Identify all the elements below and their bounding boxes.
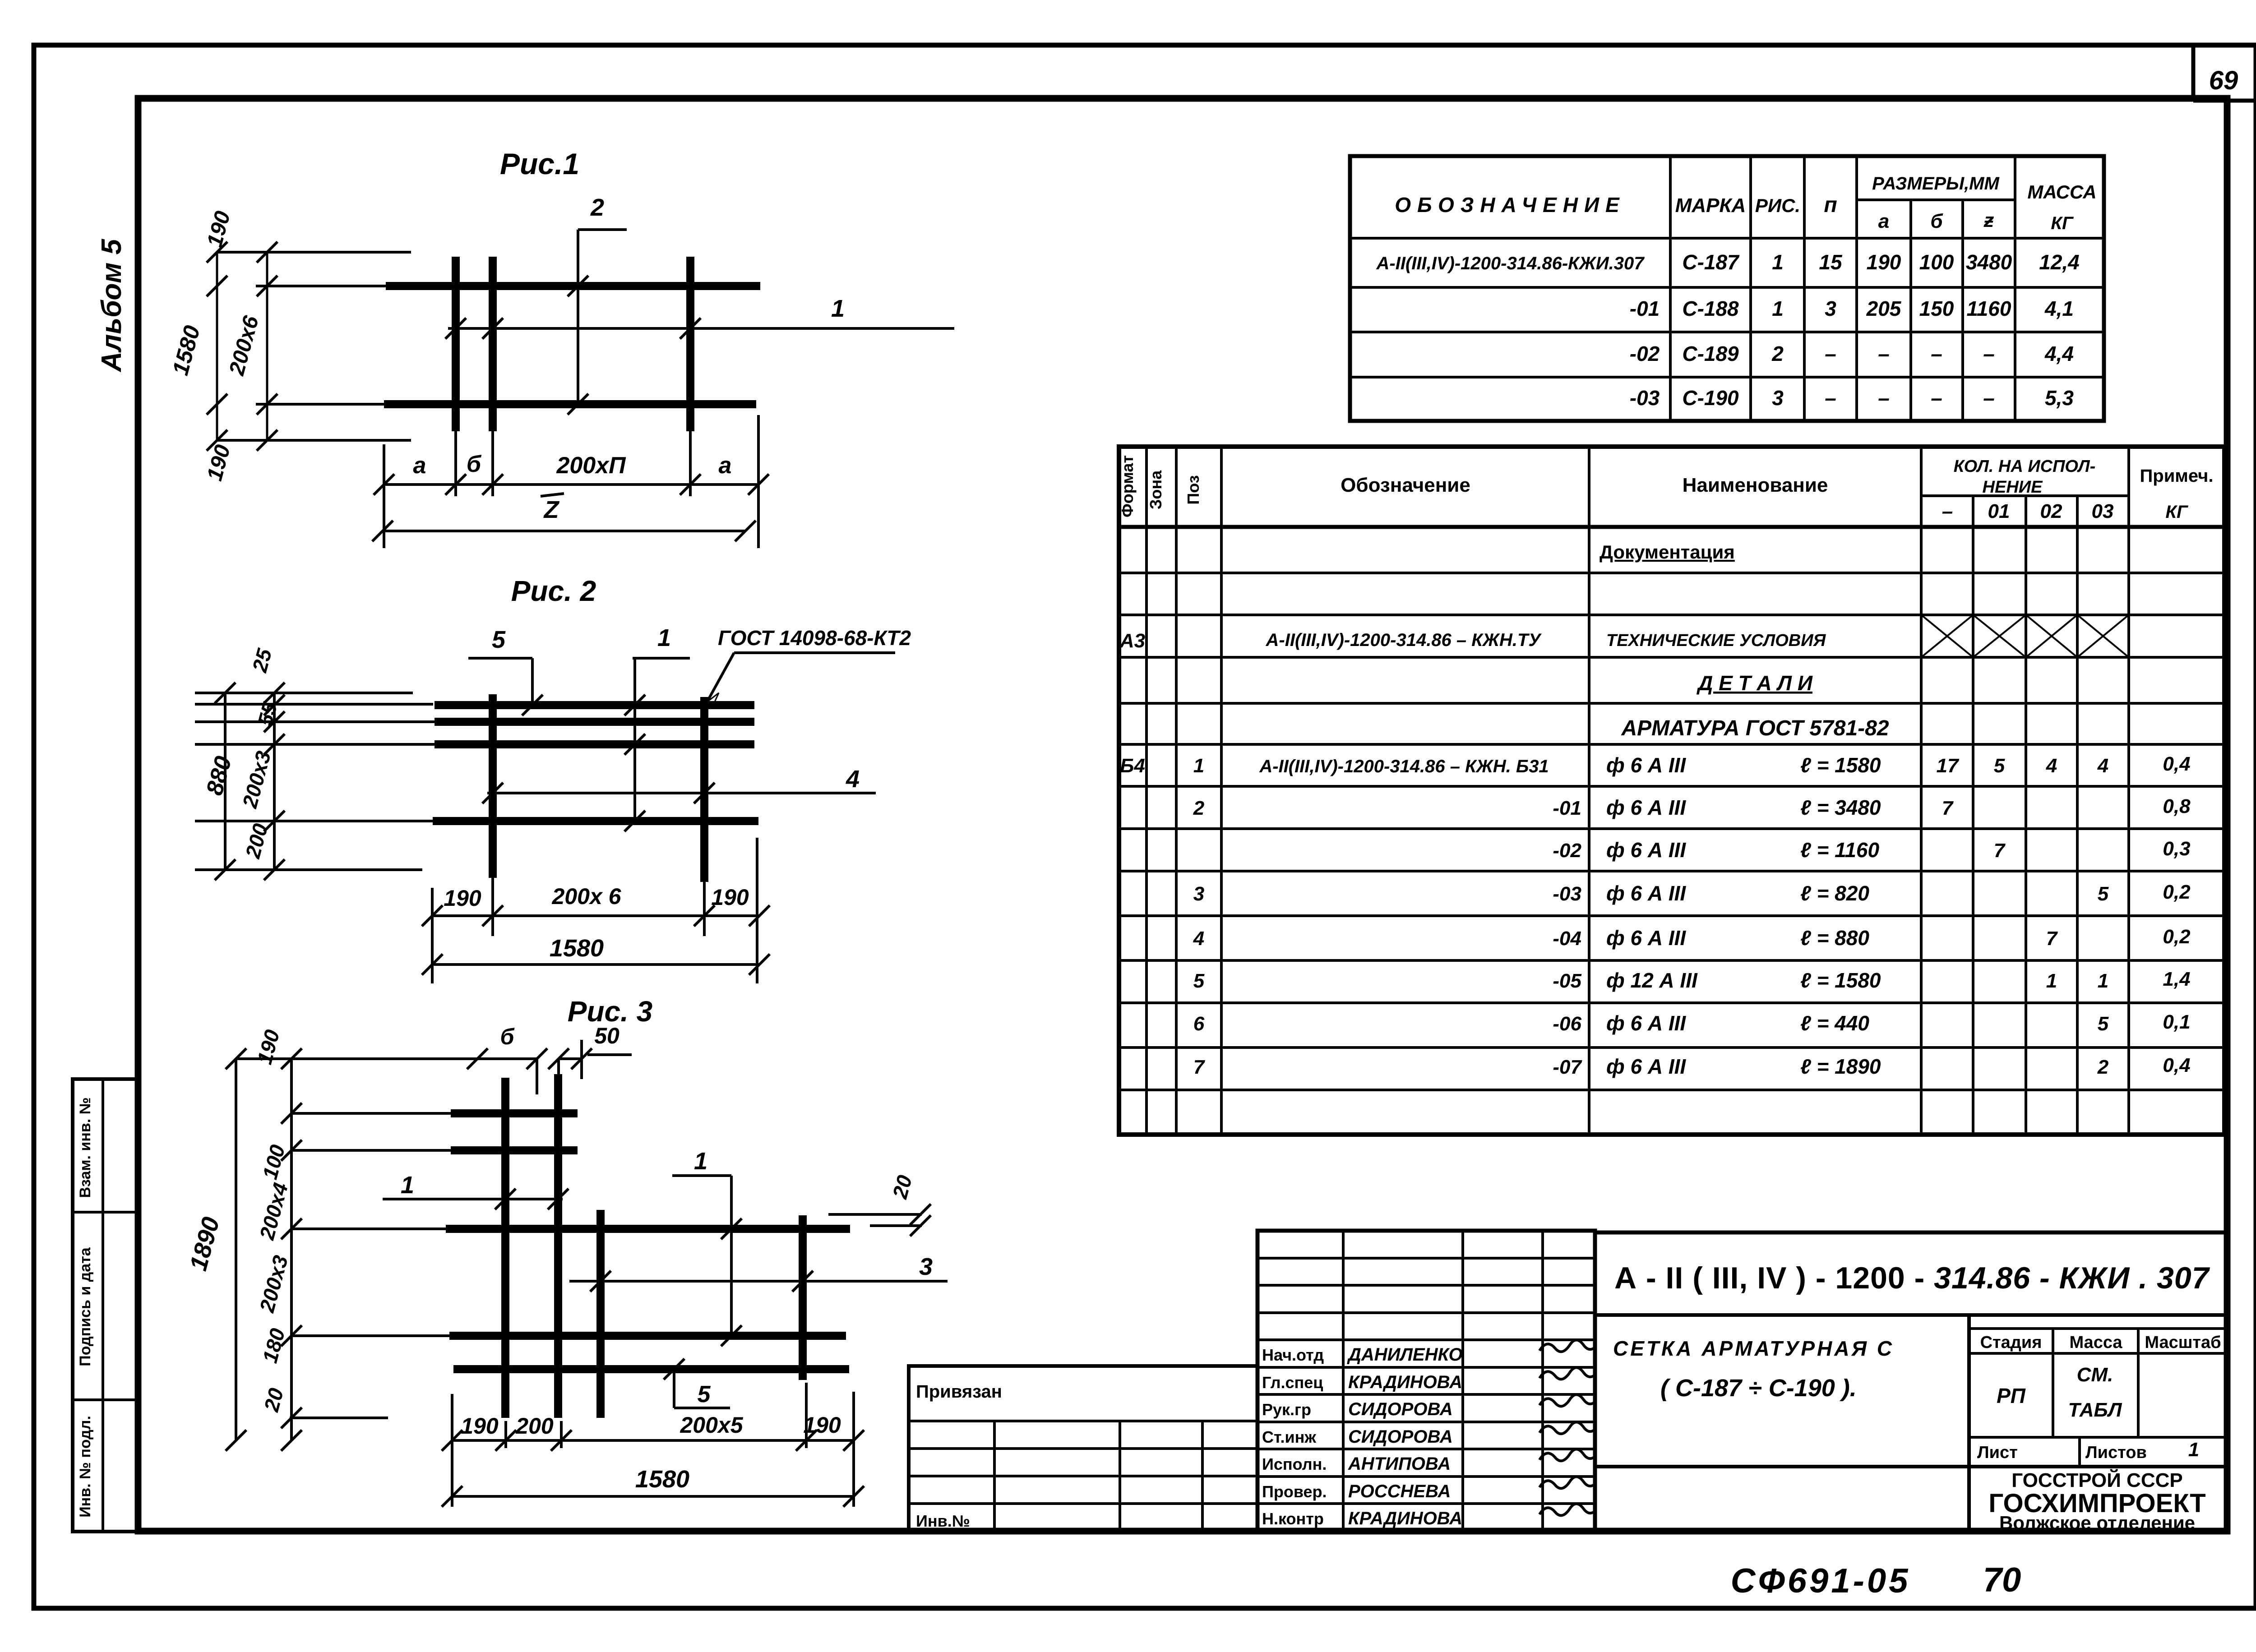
svg-text:-07: -07 [1553,1056,1582,1078]
svg-text:ℓ = 440: ℓ = 440 [1800,1011,1869,1035]
svg-text:200хП: 200хП [556,452,626,479]
svg-text:4: 4 [1193,928,1204,950]
svg-text:200: 200 [515,1413,554,1439]
svg-text:Н.контр: Н.контр [1262,1509,1324,1528]
svg-text:Формат: Формат [1118,455,1137,517]
svg-text:а: а [1878,210,1889,232]
svg-text:0,8: 0,8 [2163,795,2191,817]
svg-text:ℓ = 1890: ℓ = 1890 [1800,1055,1881,1078]
svg-text:1: 1 [831,295,845,322]
svg-text:–: – [1931,342,1942,365]
svg-text:( С-187 ÷ С-190 ).: ( С-187 ÷ С-190 ). [1660,1375,1857,1402]
svg-text:ф 6 А III: ф 6 А III [1606,881,1686,905]
svg-text:4: 4 [846,766,860,793]
svg-text:-02: -02 [1553,840,1581,862]
svg-text:ℓ = 1580: ℓ = 1580 [1800,969,1881,992]
svg-text:2: 2 [1193,797,1205,819]
svg-text:КГ: КГ [2165,502,2189,522]
svg-text:–: – [1825,342,1836,365]
svg-text:С-189: С-189 [1682,342,1739,365]
svg-text:Масштаб: Масштаб [2145,1333,2221,1352]
svg-text:150: 150 [1919,297,1954,320]
svg-text:РИС.: РИС. [1755,195,1800,216]
svg-text:1: 1 [1193,755,1204,777]
svg-text:КРАДИНОВА: КРАДИНОВА [1348,1372,1462,1392]
svg-text:-01: -01 [1630,297,1660,320]
svg-text:–: – [1931,386,1942,410]
svg-text:3: 3 [1193,883,1204,905]
svg-text:п: п [1824,193,1837,217]
svg-text:7: 7 [2046,928,2058,950]
svg-text:КОЛ. НА ИСПОЛ-: КОЛ. НА ИСПОЛ- [1954,457,2096,476]
svg-text:2: 2 [2097,1056,2109,1078]
svg-text:25: 25 [248,646,277,675]
svg-text:а: а [413,452,426,479]
svg-text:Волжское отделение: Волжское отделение [1999,1512,2195,1533]
svg-text:ℓ = 1160: ℓ = 1160 [1800,838,1880,862]
svg-text:СМ.: СМ. [2077,1364,2113,1386]
svg-text:–: – [1942,500,1953,522]
svg-text:РАЗМЕРЫ,ММ: РАЗМЕРЫ,ММ [1872,174,2000,194]
svg-text:3: 3 [1825,297,1836,320]
svg-text:Рис. 2: Рис. 2 [511,575,596,607]
svg-text:7: 7 [1942,797,1954,819]
svg-text:ГОССТРОЙ СССР: ГОССТРОЙ СССР [2011,1468,2182,1491]
svg-text:-03: -03 [1553,883,1581,905]
svg-text:190: 190 [461,1413,499,1439]
svg-text:СИДОРОВА: СИДОРОВА [1348,1427,1453,1447]
svg-text:Инв.№: Инв.№ [916,1512,970,1530]
svg-text:А3: А3 [1119,630,1145,652]
svg-text:Лист: Лист [1977,1443,2018,1462]
svg-text:СЕТКА АРМАТУРНАЯ С: СЕТКА АРМАТУРНАЯ С [1613,1337,1894,1360]
svg-text:РОССНЕВА: РОССНЕВА [1348,1481,1451,1501]
svg-text:190: 190 [803,1412,841,1438]
svg-text:1: 1 [401,1172,414,1199]
svg-text:ф 6 А III: ф 6 А III [1606,796,1686,819]
svg-text:-03: -03 [1630,386,1660,410]
svg-text:190: 190 [203,208,235,249]
svg-text:А-II(III,IV)-1200-314.86 – КЖН: А-II(III,IV)-1200-314.86 – КЖН. Б31 [1259,757,1549,776]
svg-text:ф 6 А III: ф 6 А III [1606,753,1686,777]
svg-text:Б4: Б4 [1120,755,1145,777]
svg-text:0,2: 0,2 [2163,881,2191,903]
svg-text:7: 7 [1994,840,2006,862]
svg-text:3: 3 [919,1253,933,1280]
svg-text:70: 70 [1983,1561,2021,1599]
svg-text:03: 03 [2092,500,2114,522]
svg-text:180: 180 [258,1326,289,1366]
svg-text:Рис.1: Рис.1 [500,147,579,180]
svg-text:Альбом 5: Альбом 5 [96,238,127,373]
svg-text:Подпись и дата: Подпись и дата [77,1247,94,1366]
svg-text:205: 205 [1866,297,1902,320]
svg-text:Гл.спец: Гл.спец [1262,1373,1323,1392]
svg-text:2: 2 [590,194,604,221]
svg-text:КГ: КГ [2051,213,2074,233]
svg-text:б: б [467,451,482,477]
svg-text:200х6: 200х6 [225,313,264,378]
svg-text:880: 880 [201,753,236,798]
svg-text:12,4: 12,4 [2039,250,2080,274]
svg-text:С-187: С-187 [1682,250,1740,274]
svg-text:РП: РП [1997,1384,2026,1407]
svg-text:1: 1 [1772,250,1784,274]
svg-text:190: 190 [1867,250,1901,274]
svg-text:200х3: 200х3 [238,748,276,811]
svg-text:-05: -05 [1553,970,1581,992]
svg-text:Наименование: Наименование [1683,474,1828,496]
svg-text:-04: -04 [1553,928,1581,950]
svg-text:–: – [1878,386,1890,410]
svg-text:ℓ = 820: ℓ = 820 [1800,881,1869,905]
svg-text:1580: 1580 [167,323,205,378]
svg-text:КРАДИНОВА: КРАДИНОВА [1348,1509,1462,1528]
svg-text:А-II(III,IV)-1200-314.86-КЖИ.3: А-II(III,IV)-1200-314.86-КЖИ.307 [1376,254,1645,273]
svg-text:б: б [1930,210,1943,232]
svg-text:7: 7 [1193,1056,1206,1078]
svg-text:ф 6 А III: ф 6 А III [1606,1055,1686,1078]
svg-text:Провер.: Провер. [1262,1482,1327,1501]
svg-text:ф 6 А III: ф 6 А III [1606,1011,1686,1035]
svg-text:-01: -01 [1553,797,1581,819]
svg-text:200х5: 200х5 [680,1412,743,1438]
svg-text:ф 6 А III: ф 6 А III [1606,838,1686,862]
svg-text:ТАБЛ: ТАБЛ [2068,1399,2122,1421]
svg-text:–: – [1983,386,1995,410]
svg-text:ℓ = 1580: ℓ = 1580 [1800,753,1881,777]
svg-text:Взам. инв. №: Взам. инв. № [77,1097,94,1198]
svg-text:Обозначение: Обозначение [1341,474,1470,496]
svg-text:МАРКА: МАРКА [1675,194,1746,217]
svg-text:3480: 3480 [1966,250,2012,274]
svg-text:190: 190 [444,886,481,911]
svg-text:200х3: 200х3 [255,1253,293,1315]
svg-text:200: 200 [240,821,272,861]
svg-text:–: – [1878,342,1890,365]
svg-text:Ст.инж: Ст.инж [1262,1428,1316,1446]
svg-text:1: 1 [694,1148,707,1175]
svg-text:АРМАТУРА ГОСТ 5781-82: АРМАТУРА ГОСТ 5781-82 [1621,716,1889,740]
svg-text:17: 17 [1937,755,1960,777]
svg-text:1580: 1580 [635,1466,689,1493]
svg-text:0,3: 0,3 [2163,838,2190,860]
svg-text:-06: -06 [1553,1013,1581,1035]
svg-text:Поз: Поз [1184,475,1202,504]
svg-text:С-190: С-190 [1682,386,1739,410]
svg-text:СИДОРОВА: СИДОРОВА [1348,1399,1453,1419]
svg-text:Примеч.: Примеч. [2140,466,2214,486]
svg-text:ƶ: ƶ [1983,209,1994,231]
svg-text:Инв. № подл.: Инв. № подл. [77,1416,94,1518]
svg-text:Д Е Т А Л И: Д Е Т А Л И [1696,671,1813,695]
svg-text:20: 20 [259,1385,288,1414]
svg-text:100: 100 [258,1142,289,1182]
svg-text:1: 1 [657,624,671,651]
svg-text:4,1: 4,1 [2044,297,2074,320]
svg-text:ДАНИЛЕНКО: ДАНИЛЕНКО [1347,1345,1463,1365]
svg-text:Z: Z [543,496,560,523]
svg-text:ф 6 А III: ф 6 А III [1606,926,1686,950]
svg-text:69: 69 [2209,66,2238,95]
svg-text:1,4: 1,4 [2163,968,2190,990]
svg-text:б: б [500,1024,515,1049]
svg-text:15: 15 [1819,250,1843,274]
svg-text:А - II ( III, IV ) - 1200 - 31: А - II ( III, IV ) - 1200 - 314.86 - КЖИ… [1614,1261,2210,1295]
svg-text:Исполн.: Исполн. [1262,1455,1327,1473]
svg-text:А-II(III,IV)-1200-314.86 – КЖН: А-II(III,IV)-1200-314.86 – КЖН.ТУ [1266,630,1542,650]
svg-text:190: 190 [252,1027,284,1067]
svg-text:АНТИПОВА: АНТИПОВА [1348,1454,1451,1474]
svg-text:0,1: 0,1 [2163,1011,2190,1033]
svg-text:1160: 1160 [1967,297,2011,320]
svg-text:200х 6: 200х 6 [552,884,622,909]
svg-text:5: 5 [2098,1013,2109,1035]
svg-text:Привязан: Привязан [916,1382,1002,1402]
svg-text:Зона: Зона [1146,470,1165,509]
svg-text:1: 1 [1772,297,1784,320]
svg-text:Нач.отд: Нач.отд [1262,1346,1324,1364]
svg-text:5: 5 [1994,755,2005,777]
svg-text:190: 190 [711,885,749,910]
svg-text:0,4: 0,4 [2163,753,2190,775]
svg-text:–: – [1983,342,1995,365]
svg-text:Листов: Листов [2085,1443,2147,1462]
svg-text:1890: 1890 [185,1214,225,1274]
svg-text:а: а [719,452,732,479]
svg-text:02: 02 [2040,500,2062,522]
svg-text:НЕНИЕ: НЕНИЕ [1983,478,2043,497]
svg-text:СФ691-05: СФ691-05 [1731,1562,1911,1600]
svg-text:4,4: 4,4 [2044,342,2074,365]
svg-text:С-188: С-188 [1682,297,1739,320]
svg-text:1: 1 [2046,970,2057,992]
svg-text:100: 100 [1919,250,1954,274]
svg-text:1580: 1580 [550,935,604,962]
svg-text:Рук.гр: Рук.гр [1262,1400,1311,1419]
svg-text:1: 1 [2188,1439,2199,1461]
svg-text:–: – [1825,386,1836,410]
svg-text:ℓ = 880: ℓ = 880 [1800,926,1869,950]
svg-text:Документация: Документация [1600,541,1735,563]
svg-text:0,4: 0,4 [2163,1054,2190,1076]
svg-text:5,3: 5,3 [2045,386,2074,410]
svg-text:01: 01 [1988,500,2010,522]
svg-text:6: 6 [1193,1013,1205,1035]
svg-text:50: 50 [594,1023,619,1048]
svg-text:4: 4 [2046,755,2057,777]
svg-text:ℓ = 3480: ℓ = 3480 [1800,796,1881,819]
svg-text:Масса: Масса [2069,1333,2122,1352]
svg-text:ф 12 А III: ф 12 А III [1606,969,1698,992]
svg-text:ОБОЗНАЧЕНИЕ: ОБОЗНАЧЕНИЕ [1395,193,1625,217]
svg-text:ТЕХНИЧЕСКИЕ УСЛОВИЯ: ТЕХНИЧЕСКИЕ УСЛОВИЯ [1606,631,1826,650]
svg-text:20: 20 [888,1172,917,1201]
svg-text:4: 4 [2097,755,2108,777]
svg-text:ГОСТ 14098-68-КТ2: ГОСТ 14098-68-КТ2 [718,626,911,650]
svg-text:МАССА: МАССА [2027,181,2096,203]
svg-text:1: 1 [2098,970,2108,992]
svg-text:2: 2 [1771,342,1784,365]
svg-text:5: 5 [1193,970,1205,992]
svg-text:5: 5 [492,626,506,653]
svg-text:Стадия: Стадия [1980,1333,2042,1352]
svg-text:0,2: 0,2 [2163,926,2191,948]
svg-text:5: 5 [698,1381,711,1407]
svg-text:-02: -02 [1630,342,1660,365]
svg-text:3: 3 [1772,386,1784,410]
svg-text:5: 5 [2098,883,2109,905]
